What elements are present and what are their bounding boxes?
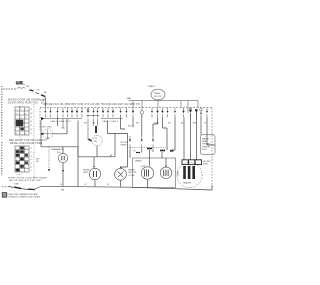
label: door switch wire code [41, 100, 44, 105]
arrow: left edge feed [41, 117, 44, 120]
svg-text:OR: OR [136, 122, 140, 124]
terminal block TB2 (lower connector ladder) [15, 146, 32, 176]
timer dashed enclosure [40, 103, 212, 189]
left margin vertical part-number text [1, 86, 3, 176]
svg-text:ABCDE FGH JKL MNP RST UVW XYZ: ABCDE FGH JKL MNP RST UVW XYZ 123 456 78… [44, 103, 140, 106]
wire: fill switch down [96, 146, 98, 157]
svg-text:BK: BK [44, 92, 47, 94]
contact T2 [50, 108, 52, 118]
relay contact R3 [152, 136, 154, 150]
contact T7 [87, 108, 89, 118]
svg-text:W: W [60, 184, 62, 186]
svg-text:MTR: MTR [141, 166, 146, 168]
capacitor C1 [160, 165, 171, 178]
svg-text:.: . [12, 127, 13, 129]
svg-text:DENOTES CABINET GND AND: DENOTES CABINET GND AND [9, 193, 39, 196]
svg-text:SW: SW [26, 86, 29, 88]
svg-text:BONDED CONNECTION SCREW: BONDED CONNECTION SCREW [9, 197, 41, 199]
contact T3 [57, 108, 59, 118]
contact T21 [183, 108, 185, 118]
svg-text:SW: SW [36, 159, 39, 161]
svg-text:d: d [16, 113, 17, 115]
wire: motor box terminals [133, 149, 174, 167]
svg-text:DR: DR [37, 90, 40, 92]
svg-text:STAT: STAT [203, 163, 209, 166]
svg-text:140 F: 140 F [202, 149, 208, 151]
svg-text:NC: NC [36, 161, 39, 163]
wire: timer aux drop [187, 101, 189, 113]
svg-text:-3: -3 [30, 155, 32, 157]
svg-text:-6: -6 [30, 167, 32, 169]
svg-text:n: n [20, 133, 21, 135]
contact T11 [107, 108, 109, 118]
contact T20 [174, 108, 176, 118]
terminal block TB1 (upper connector ladder) [12, 106, 33, 139]
svg-text:v: v [25, 167, 26, 169]
contact T14 [126, 108, 128, 118]
svg-text:& CAP: & CAP [129, 174, 136, 177]
wire: run down to wash motor [122, 134, 128, 168]
contact T18 [162, 108, 164, 118]
svg-text:x: x [21, 171, 22, 173]
TB1 pin labels (right side) [30, 109, 33, 135]
legend symbol: ground screw square [2, 193, 40, 199]
svg-text:DOOR OPEN POSITION: DOOR OPEN POSITION [8, 102, 38, 104]
contact T17 [157, 108, 159, 118]
thermostat box [201, 135, 216, 155]
contact T8 [93, 108, 95, 118]
contact T22 [190, 108, 192, 118]
svg-text:SEE CHART FOR SW CONTACT: SEE CHART FOR SW CONTACT [9, 139, 48, 142]
svg-text:SAB: SAB [127, 97, 132, 100]
TB1 dark cells [16, 120, 24, 130]
contact T5 [76, 108, 78, 118]
svg-text:-O: -O [30, 125, 33, 127]
float switch S4 (arrow contact) [36, 147, 58, 172]
node J2 (solid) [195, 109, 198, 112]
door switch S1 (dark blob) [30, 90, 34, 91]
wire: contact bar A [44, 118, 82, 120]
node J3 [200, 108, 203, 111]
svg-text:MOTOR: MOTOR [154, 96, 162, 98]
svg-text:W: W [107, 184, 109, 186]
svg-text:-7: -7 [30, 170, 32, 172]
svg-text:-R: -R [30, 121, 33, 123]
svg-text:L1 BK: L1 BK [16, 82, 23, 85]
door switch S3 (neutral side chain) [9, 186, 14, 187]
svg-text:a: a [16, 109, 17, 111]
svg-text:-B: -B [30, 109, 33, 111]
svg-text:TN: TN [168, 122, 171, 124]
contact T24 [206, 108, 208, 118]
wire: left bottom run [41, 146, 78, 148]
wire: timer feed bus [129, 100, 199, 102]
svg-text:BELOW SEE NOTE AT LEFT: BELOW SEE NOTE AT LEFT [9, 179, 42, 182]
label: micro door switch note [8, 100, 45, 105]
wire: branch to rinse solenoid [93, 157, 95, 167]
TB1 left ticks [12, 111, 13, 129]
node J1 (open circle) [140, 111, 143, 114]
rinse aid dispenser solenoid L3 [83, 168, 101, 186]
svg-text:FLT: FLT [94, 138, 98, 140]
drain motor enclosure [133, 158, 176, 188]
fuse F1 (in-line component chain sloping down-right) [17, 87, 25, 88]
svg-text:CAM 4 CAM 5: CAM 4 CAM 5 [102, 120, 119, 123]
detergent dispenser solenoid L2 (dashed circle) [41, 127, 53, 139]
heater element E2 [188, 166, 191, 179]
thermal fuse TF1 [94, 119, 98, 133]
svg-text:RINSE: RINSE [83, 170, 90, 172]
contact T6 [81, 108, 83, 118]
svg-text:-2: -2 [30, 152, 32, 154]
svg-text:TIMER: TIMER [148, 86, 155, 88]
svg-text:e: e [25, 113, 26, 115]
svg-text:c: c [25, 109, 26, 111]
svg-text:-D: -D [30, 129, 33, 131]
svg-text:-W: -W [30, 113, 33, 115]
svg-text:.: . [12, 111, 13, 113]
svg-text:WATER: WATER [202, 138, 210, 141]
wire from interlock down to timer box [44, 97, 46, 108]
svg-text:STAT BK: STAT BK [202, 145, 211, 148]
timer motor M1 (ellipse top right) [127, 86, 199, 111]
wire: node J1 drop [141, 114, 143, 136]
drain motor M3 [141, 166, 154, 188]
contact T1 [44, 108, 46, 118]
svg-text:WASH: WASH [129, 169, 136, 172]
svg-text:^ ^: ^ ^ [19, 136, 21, 139]
svg-text:-Y: -Y [30, 133, 33, 135]
svg-text:650W: 650W [176, 171, 178, 176]
TB2 dark cells [16, 147, 28, 172]
wire: heater risers [184, 112, 215, 160]
contact T23 [200, 111, 202, 118]
wire: mid horizontal run [78, 121, 115, 157]
heater assembly dashed circle [176, 162, 202, 187]
contact T12 [112, 108, 114, 118]
svg-text:W: W [85, 184, 87, 186]
heater element E1 [183, 166, 186, 179]
node on contact T7 [87, 109, 89, 111]
label: lower-left wiring note [8, 176, 48, 182]
interlock contact blob [41, 95, 45, 97]
wire: riser to neutral bus [77, 147, 79, 187]
lower components [36, 109, 215, 192]
relay contact R1 [129, 136, 131, 150]
svg-text:BR: BR [193, 122, 196, 124]
wire: neutral bus [41, 186, 212, 190]
contact T10 [102, 108, 104, 118]
wire: contact bar A2 [87, 115, 100, 117]
linkage (dashed) [127, 147, 166, 149]
heater terminal block [182, 160, 212, 166]
svg-text:-1: -1 [30, 148, 32, 150]
timer switch contacts row [41, 101, 208, 128]
svg-text:^ u v ^: ^ u v ^ [16, 173, 22, 176]
heater element E3 [192, 166, 195, 179]
wire: left edge down [40, 121, 42, 147]
wash motor M2 [115, 168, 137, 186]
node N: neutral dashed lead (bottom-left) [2, 182, 41, 190]
svg-text:WH: WH [61, 190, 65, 192]
svg-text:DISP: DISP [83, 172, 88, 174]
contact T3a [62, 108, 64, 118]
svg-text:-4: -4 [30, 159, 32, 161]
svg-text:TIMER: TIMER [154, 93, 161, 95]
svg-text:DET DISP: DET DISP [42, 127, 52, 129]
svg-text:WIRE COLOR CODE PER CHART: WIRE COLOR CODE PER CHART [8, 176, 48, 179]
wire: contact T3a drop [62, 119, 65, 128]
wire: step to relay riser [115, 134, 128, 157]
wire: contact bar B [101, 118, 123, 120]
svg-text:b: b [20, 109, 21, 111]
contact T15 [132, 108, 134, 118]
wire: jog connector [110, 155, 112, 157]
svg-text:RELAY: RELAY [121, 144, 128, 147]
svg-text:CAM 1 CAM 2 C3: CAM 1 CAM 2 C3 [50, 120, 71, 123]
label: connector note between blocks [9, 139, 48, 145]
svg-text:-U: -U [30, 117, 33, 119]
door switch S2 [36, 93, 40, 94]
contact T19 [167, 108, 169, 118]
svg-text:SW: SW [94, 141, 97, 143]
wire: contact T3 drop [57, 118, 59, 127]
svg-text:. .: . . [17, 182, 19, 184]
svg-text:1M: 1M [84, 122, 87, 124]
svg-text:h: h [25, 117, 26, 119]
svg-text:g: g [20, 117, 21, 119]
svg-text:DETAIL AND COLOR CODE: DETAIL AND COLOR CODE [10, 142, 43, 145]
svg-text:s: s [25, 148, 26, 150]
node L1: line input dashed lead (top-left) [3, 82, 47, 108]
svg-text:-5: -5 [30, 163, 32, 165]
drain valve solenoid L4 [57, 147, 68, 187]
wire: relay to motor box [130, 150, 153, 158]
contact T9 [97, 108, 99, 118]
TB2 pin labels (right side) [30, 148, 32, 172]
svg-text:o: o [25, 133, 26, 135]
wire: contact T17 drop to relay [153, 118, 158, 137]
fill switch FS1 (dotted circle) [88, 119, 102, 146]
svg-text:u: u [16, 159, 17, 161]
contact T3b [66, 108, 68, 118]
contact T13 [120, 108, 122, 118]
wire: dashed riser from TB1 area down to neutral chain [33, 104, 35, 180]
wire: feeds from timer to drain area [163, 118, 176, 153]
contact T16 [151, 108, 153, 118]
relay contact R2 [141, 136, 143, 150]
svg-text:.: . [12, 119, 13, 121]
svg-text:MICRO DOOR SW SHOWN IN: MICRO DOOR SW SHOWN IN [8, 100, 45, 102]
svg-text:HEATER: HEATER [183, 182, 192, 185]
svg-text:DRAIN: DRAIN [135, 160, 142, 163]
wire: riser from contacts to mid runs [108, 121, 116, 134]
contact T4 [71, 108, 73, 118]
wire: dispenser to riser [53, 119, 67, 134]
